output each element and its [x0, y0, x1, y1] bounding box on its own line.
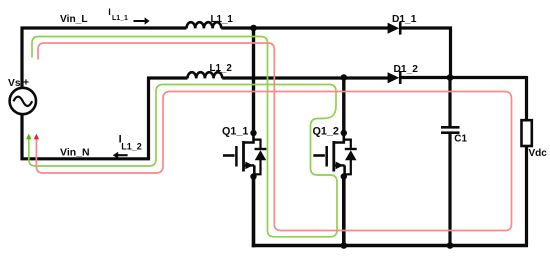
svg-text:Vin_N: Vin_N	[60, 147, 90, 159]
node: L1_1 / Q1_1 junction	[250, 25, 257, 32]
node: bus / Q1_2 leg	[341, 242, 348, 249]
svg-text:L1_1: L1_1	[112, 15, 128, 22]
current arrow I_L1_1	[134, 20, 146, 22]
wire: Q1_2 drain leg	[342, 78, 345, 134]
svg-text:L1_1: L1_1	[211, 14, 234, 25]
Q1_1 drain lead	[244, 133, 254, 143]
wire: D1_2 cathode to output right corner	[399, 76, 527, 79]
wire: C1 bottom leg	[448, 134, 451, 246]
svg-text:Vdc: Vdc	[529, 148, 548, 159]
svg-text:I: I	[108, 7, 111, 17]
node: bus / C1 leg	[447, 242, 454, 249]
red current loop path	[36, 43, 511, 231]
sine symbol of Vs	[13, 97, 32, 106]
node: Q1_1 drain	[250, 130, 256, 136]
node: D1_1 / D1_2 / C1 junction	[447, 74, 454, 81]
Q1_2 channel bar	[332, 141, 335, 172]
wire: top-left L line from source to L1_1	[22, 28, 187, 88]
svg-text:Vs: Vs	[8, 78, 21, 89]
transistor Q1_2	[313, 78, 356, 246]
Q1_2 drain lead	[334, 133, 344, 143]
wire: Vdc to bottom-right corner	[525, 146, 528, 245]
svg-text:D1_1: D1_1	[392, 14, 417, 25]
diode D1_2	[388, 72, 400, 83]
Q1_1 gate lead	[223, 154, 235, 157]
wire: L1_2 to D1_2 anode	[222, 76, 388, 79]
node: Q1_2 source	[341, 173, 347, 179]
inductor L1_2	[188, 72, 223, 78]
svg-text:Q1_1: Q1_1	[222, 126, 248, 138]
Q1_2 gate bar	[325, 146, 328, 167]
node: Q1_2 drain	[341, 130, 347, 136]
svg-text:+: +	[23, 76, 29, 88]
svg-text:Q1_2: Q1_2	[313, 126, 339, 138]
capacitor C1	[441, 126, 460, 129]
green current loop path	[29, 37, 337, 237]
current arrow I_L1_2	[117, 154, 128, 156]
resistor / load Vdc	[522, 120, 532, 146]
node: Q1_1 source	[250, 173, 256, 179]
wire: C1 top leg	[448, 78, 451, 127]
node: D1_2 wire / Q1_2 junction	[341, 74, 348, 81]
body diode of Q1_1	[254, 140, 261, 148]
body diode of Q1_2	[344, 140, 351, 148]
wire: right side down to load Vdc	[525, 76, 528, 121]
wire: D1_1 cathode to top-right corner and down	[399, 28, 451, 78]
Q1_2 source lead with arrow	[334, 164, 344, 166]
cathode bar of D1_2	[399, 71, 402, 84]
Q1_1 channel bar	[242, 141, 245, 172]
green return arrowhead	[26, 134, 31, 140]
transistor Q1_1	[223, 28, 266, 247]
svg-text:Vin_L: Vin_L	[60, 14, 88, 25]
wire: Q1_2 source leg to bus	[342, 177, 346, 246]
AC source Vs	[10, 88, 36, 114]
wire: L1_1 to D1_1 anode	[221, 26, 388, 29]
wire: Q1_1 drain leg	[252, 28, 255, 133]
red return arrowhead	[34, 134, 39, 140]
wire: bottom-left N line rising to L1_2	[22, 78, 149, 159]
Q1_1 gate bar	[235, 146, 238, 167]
inductor L1_1	[186, 22, 221, 28]
svg-text:L1_2: L1_2	[121, 141, 142, 151]
wire: into L1_2	[147, 76, 188, 79]
wire: Q1_1 source leg to bus	[252, 177, 256, 248]
Q1_2 gate lead	[313, 154, 325, 157]
svg-text:C1: C1	[454, 133, 467, 144]
diode D1_1	[388, 23, 400, 34]
wire: bottom bus	[252, 244, 528, 248]
svg-text:D1_2: D1_2	[394, 64, 419, 75]
svg-text:L1_2: L1_2	[210, 63, 233, 74]
Q1_1 source lead with arrow	[244, 164, 254, 166]
cathode bar of D1_1	[399, 22, 402, 35]
